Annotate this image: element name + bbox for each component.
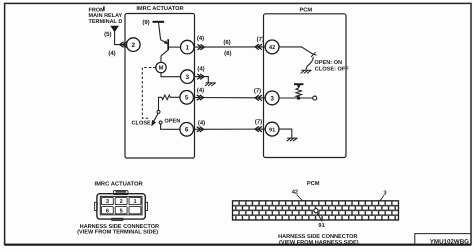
junction dot bbox=[297, 96, 300, 99]
chevrons at IMRC pin 6 bbox=[197, 127, 204, 132]
power rail (9) bbox=[153, 22, 165, 40]
svg-text:OPEN: ON: OPEN: ON bbox=[314, 60, 342, 66]
svg-text:(VIEW FROM HARNESS SIDE): (VIEW FROM HARNESS SIDE) bbox=[279, 239, 359, 246]
svg-text:(4): (4) bbox=[197, 87, 204, 94]
title block bbox=[415, 234, 471, 246]
connector chevrons at IMRC pin 2 bbox=[120, 42, 127, 47]
leader to label 91 bbox=[317, 213, 322, 222]
wire: IMRC pin 5 to PCM pin 3 bbox=[194, 97, 266, 99]
ground (PCM pin 91) bbox=[287, 138, 298, 141]
IMRC actuator box bbox=[125, 6, 195, 158]
svg-text:OPEN: OPEN bbox=[164, 118, 180, 124]
svg-text:PCM: PCM bbox=[299, 7, 312, 13]
wire: IMRC pin 3 to ground bbox=[194, 77, 208, 83]
svg-text:TERMINAL D: TERMINAL D bbox=[89, 19, 123, 25]
wire: switch to IMRC pin 6 bbox=[161, 124, 180, 129]
svg-text:(7): (7) bbox=[257, 36, 264, 43]
resistor (PCM pull-up) bbox=[296, 85, 302, 98]
circled terminal 91 in connector bbox=[313, 208, 318, 213]
PCM pin 3 bbox=[265, 91, 279, 105]
svg-text:IMRC ACTUATOR: IMRC ACTUATOR bbox=[136, 6, 183, 12]
svg-text:(4): (4) bbox=[198, 119, 205, 126]
svg-text:(4): (4) bbox=[197, 66, 204, 73]
svg-text:YMU102WBG: YMU102WBG bbox=[430, 239, 469, 246]
svg-text:(9): (9) bbox=[142, 19, 149, 26]
power feed arrow from main relay bbox=[110, 26, 119, 33]
svg-text:(4): (4) bbox=[197, 35, 204, 42]
net label: FROM MAIN RELAY TERMINAL D bbox=[89, 7, 123, 25]
wire: IMRC pin 6 to PCM pin 91 bbox=[194, 128, 266, 130]
position switch contacts bbox=[157, 110, 162, 124]
svg-text:M: M bbox=[159, 66, 164, 72]
svg-text:(7): (7) bbox=[254, 87, 261, 94]
svg-text:2: 2 bbox=[132, 42, 136, 49]
wire: motor to IMRC pin 3 bbox=[161, 73, 181, 77]
svg-text:5: 5 bbox=[120, 208, 123, 214]
chevrons at IMRC pin 3 bbox=[197, 74, 204, 79]
PCM harness connector (brick band) bbox=[233, 201, 399, 220]
open terminal (PCM internal) bbox=[313, 96, 317, 100]
motor M bbox=[156, 62, 166, 72]
svg-text:(VIEW FROM TERMINAL SIDE): (VIEW FROM TERMINAL SIDE) bbox=[77, 228, 158, 235]
svg-text:6: 6 bbox=[106, 208, 109, 214]
PCM switch blade to ground bbox=[306, 57, 314, 70]
svg-text:3: 3 bbox=[186, 74, 190, 81]
svg-text:42: 42 bbox=[269, 45, 275, 51]
chevrons at PCM pin 3 bbox=[255, 95, 262, 100]
IMRC pin 6 bbox=[180, 123, 194, 137]
chevrons at IMRC pin 5 bbox=[197, 95, 204, 100]
svg-text:CLOSE: CLOSE bbox=[132, 121, 152, 127]
terminal label 3 with leader bbox=[380, 190, 387, 201]
transistor Q1 bbox=[161, 39, 181, 62]
chevrons at PCM pin 91 bbox=[255, 126, 262, 131]
wire: main relay feed to IMRC pin 2 bbox=[115, 32, 127, 45]
svg-text:PCM: PCM bbox=[307, 181, 320, 187]
ground (IMRC pin 3) bbox=[205, 83, 216, 86]
svg-text:(8): (8) bbox=[224, 50, 231, 57]
svg-text:(7): (7) bbox=[255, 119, 262, 126]
wire: PCM pin 3 internal bbox=[279, 97, 313, 99]
wire: IMRC pin 1 to PCM pin 42 bbox=[194, 46, 265, 48]
wire: PCM pin 91 to ground bbox=[279, 129, 292, 138]
position switch blade bbox=[151, 114, 158, 127]
IMRC pin 2 bbox=[127, 38, 141, 52]
PCM pin 42 bbox=[265, 40, 279, 54]
chevrons at PCM pin 42 bbox=[255, 44, 262, 49]
svg-text:(6): (6) bbox=[223, 39, 230, 46]
PCM internal switch contact bbox=[279, 47, 317, 57]
ground (PCM switch) bbox=[301, 70, 312, 73]
caption: harness side connector (harness side) bbox=[278, 234, 359, 246]
svg-text:1: 1 bbox=[133, 199, 136, 205]
power supply T-bar (PCM) bbox=[294, 84, 304, 87]
chevrons at IMRC pin 1 bbox=[198, 44, 205, 49]
terminal label 42 with leader bbox=[292, 190, 303, 201]
IMRC connector cells bbox=[101, 197, 140, 213]
svg-text:(5): (5) bbox=[104, 31, 111, 38]
svg-text:1: 1 bbox=[186, 45, 190, 52]
svg-text:CLOSE: OFF: CLOSE: OFF bbox=[315, 66, 349, 72]
svg-text:2: 2 bbox=[120, 199, 123, 205]
mechanical linkage (dashed) bbox=[142, 68, 156, 119]
caption: harness side connector (terminal side) bbox=[77, 224, 159, 235]
IMRC harness connector shell bbox=[95, 191, 148, 221]
PCM box bbox=[264, 7, 347, 157]
svg-text:91: 91 bbox=[318, 223, 324, 229]
IMRC pin 1 bbox=[181, 40, 195, 54]
svg-text:3: 3 bbox=[270, 95, 274, 102]
IMRC connector cavity numbers bbox=[106, 199, 137, 214]
IMRC pin 5 bbox=[180, 91, 194, 105]
PCM pin 91 bbox=[265, 122, 279, 136]
svg-text:IMRC ACTUATOR: IMRC ACTUATOR bbox=[94, 180, 143, 187]
svg-text:(4): (4) bbox=[108, 50, 115, 57]
svg-text:5: 5 bbox=[185, 95, 189, 102]
svg-text:3: 3 bbox=[106, 199, 109, 205]
resistor R (IMRC internal) bbox=[159, 95, 181, 110]
svg-text:91: 91 bbox=[269, 127, 275, 133]
svg-text:6: 6 bbox=[185, 127, 189, 134]
IMRC pin 3 bbox=[181, 70, 195, 84]
